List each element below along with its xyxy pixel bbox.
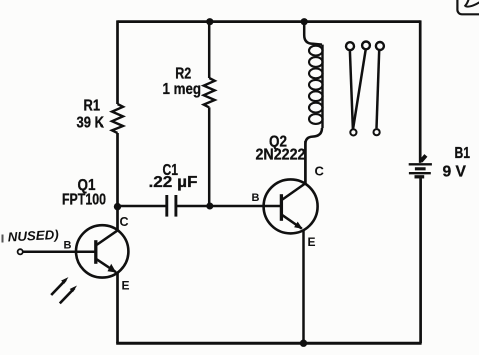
svg-text:2N2222: 2N2222 bbox=[256, 147, 306, 164]
svg-text:E: E bbox=[308, 235, 316, 249]
svg-text:B: B bbox=[252, 192, 260, 204]
svg-text:39 K: 39 K bbox=[77, 115, 105, 132]
svg-text:C: C bbox=[315, 164, 325, 179]
svg-text:E: E bbox=[122, 279, 130, 293]
svg-text:FPT100: FPT100 bbox=[62, 192, 106, 209]
svg-text:NUSED): NUSED) bbox=[7, 227, 59, 245]
svg-text:.22 µF: .22 µF bbox=[149, 174, 198, 191]
svg-text:B: B bbox=[64, 240, 72, 252]
svg-text:C: C bbox=[120, 215, 129, 229]
svg-text:1 meg: 1 meg bbox=[163, 81, 202, 98]
svg-text:9 V: 9 V bbox=[443, 164, 467, 181]
svg-text:B1: B1 bbox=[455, 145, 471, 162]
svg-text:R1: R1 bbox=[84, 98, 101, 115]
